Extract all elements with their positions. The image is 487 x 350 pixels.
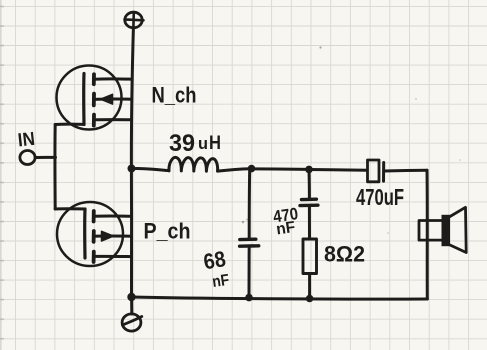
svg-text:8Ω2: 8Ω2 <box>324 242 365 267</box>
wire C2 to R1 <box>308 206 311 239</box>
transistor Q2 P-ch MOSFET <box>57 202 132 266</box>
svg-text:N_ch: N_ch <box>152 83 197 108</box>
wire node A to node B <box>252 167 309 171</box>
node return left junction <box>127 293 135 301</box>
wire output node to inductor <box>134 169 169 171</box>
wire speaker drop <box>426 170 429 299</box>
wire node B to C3 <box>309 168 367 172</box>
wire V+ rail to output node <box>131 28 133 169</box>
capacitor C1 68nF <box>240 239 259 246</box>
inductor L1 39uH <box>169 157 218 171</box>
speaker LS1 <box>419 207 466 252</box>
node A junction <box>248 165 256 173</box>
node return C1 junction <box>245 294 253 302</box>
svg-text:470uF: 470uF <box>356 184 404 210</box>
svg-text:H: H <box>209 133 221 154</box>
input terminal IN <box>20 151 35 165</box>
wire C1 to return <box>248 246 251 297</box>
svg-text:u: u <box>198 134 208 153</box>
wire C3 to right corner <box>384 169 427 173</box>
node B junction <box>305 166 313 174</box>
svg-text:nF: nF <box>211 272 230 291</box>
wire IN to gate bus <box>35 156 55 159</box>
wire gate bus vertical <box>53 125 56 210</box>
svg-text:nF: nF <box>275 219 296 239</box>
ground terminal <box>122 297 142 331</box>
wire output node down to ground junction <box>130 169 133 298</box>
node output junction <box>128 165 136 173</box>
svg-text:IN: IN <box>17 129 36 152</box>
wire bottom return <box>132 297 428 299</box>
svg-text:P_ch: P_ch <box>144 219 191 244</box>
svg-text:39: 39 <box>169 130 195 157</box>
supply terminal V+ <box>125 12 144 28</box>
resistor R1 8.2 ohm <box>303 239 317 274</box>
wire node A to C1 <box>248 169 252 240</box>
wire gate bus to Q1 gate <box>55 123 84 126</box>
wire inductor to node A <box>218 169 250 171</box>
transistor Q1 N-ch MOSFET <box>57 66 132 130</box>
capacitor C3 470uF electrolytic <box>368 160 384 182</box>
svg-text:68: 68 <box>202 246 228 274</box>
wire gate bus to Q2 gate <box>55 207 85 210</box>
capacitor C2 470nF <box>300 199 318 205</box>
node return R1 junction <box>306 295 314 303</box>
wire R1 to return <box>308 274 311 299</box>
wire node B to C2 <box>308 170 311 200</box>
